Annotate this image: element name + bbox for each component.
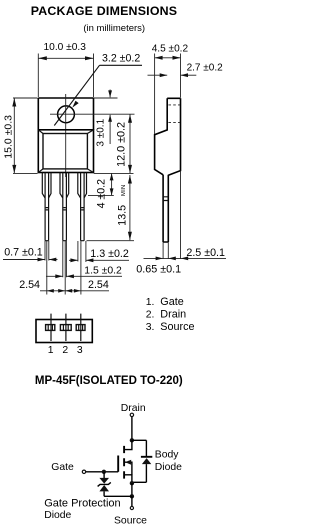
svg-text:Gate: Gate (51, 462, 74, 473)
svg-text:12.0 ±0.2: 12.0 ±0.2 (116, 122, 128, 167)
wire drain down (131, 417, 133, 441)
svg-text:Source: Source (114, 515, 147, 526)
dim 2.54 x2 (19, 279, 109, 293)
svg-text:Body: Body (155, 450, 179, 461)
source terminal (130, 506, 133, 509)
svg-text:Drain: Drain (121, 403, 146, 414)
dim 4 ±0.2 (88, 173, 114, 208)
svg-text:15.0 ±0.3: 15.0 ±0.3 (2, 115, 14, 159)
node source rail (130, 494, 134, 498)
front view tab (38, 98, 93, 130)
bottom view (36, 314, 92, 343)
svg-text:4 ±0.2: 4 ±0.2 (95, 179, 107, 208)
node gate junction (102, 470, 106, 474)
wire top to body diode branch (132, 439, 147, 441)
channel segments (123, 446, 125, 479)
svg-text:0.7 ±0.1: 0.7 ±0.1 (4, 247, 43, 259)
svg-text:13.5: 13.5 (117, 205, 129, 226)
wire source down (131, 483, 133, 496)
wire gate (86, 471, 118, 473)
body diode branch top (145, 440, 147, 456)
body bar with arrow (125, 462, 132, 475)
svg-text:2: 2 (62, 345, 68, 356)
side bottom dims (136, 171, 226, 276)
body outer (38, 130, 93, 173)
svg-text:PACKAGE DIMENSIONS: PACKAGE DIMENSIONS (31, 4, 178, 18)
source bar (124, 475, 132, 483)
svg-text:MIN: MIN (121, 184, 127, 196)
side view outline (155, 98, 181, 242)
dim 2.7 (148, 62, 224, 77)
body chamfers (38, 130, 93, 173)
svg-text:1.3 ±0.2: 1.3 ±0.2 (90, 248, 129, 260)
dim 13.5 MIN (87, 175, 135, 241)
centerline vertical (65, 94, 67, 177)
dim 4.5 (152, 43, 189, 134)
node source junction (130, 481, 134, 485)
svg-text:Gate Protection: Gate Protection (44, 497, 120, 509)
wire rail to protection diode (104, 495, 132, 497)
svg-text:Gate: Gate (160, 296, 183, 308)
svg-text:2.: 2. (146, 310, 155, 321)
svg-text:10.0 ±0.3: 10.0 ±0.3 (44, 42, 87, 53)
svg-text:2.7 ±0.2: 2.7 ±0.2 (187, 62, 224, 73)
svg-text:1: 1 (48, 345, 54, 356)
lead 3 (78, 173, 87, 241)
dim 0.7 (3, 247, 58, 262)
body diode D1 (141, 457, 152, 464)
svg-text:3 ±0.1: 3 ±0.1 (95, 118, 106, 146)
svg-text:Diode: Diode (44, 510, 71, 521)
drain bar (124, 440, 132, 449)
svg-text:3.2 ±0.2: 3.2 ±0.2 (102, 53, 140, 65)
dim 1.5 (46, 266, 122, 279)
wire branch to source node (132, 481, 147, 483)
body inner (43, 134, 87, 169)
bottom extension lines (45, 241, 86, 295)
svg-text:Diode: Diode (155, 462, 182, 473)
dim 10.0 (38, 42, 93, 97)
wire to source terminal (131, 496, 133, 506)
svg-text:Drain: Drain (160, 309, 186, 321)
lead 1 (42, 173, 51, 241)
svg-text:3.: 3. (146, 322, 155, 333)
svg-text:2.54: 2.54 (88, 279, 109, 291)
svg-text:(in millimeters): (in millimeters) (83, 23, 145, 34)
svg-text:2.5 ±0.1: 2.5 ±0.1 (186, 247, 225, 259)
dim 1.3 (69, 248, 129, 262)
body diode branch bottom (145, 464, 147, 482)
svg-text:0.65 ±0.1: 0.65 ±0.1 (136, 264, 181, 276)
dim 3.2 leader (54, 53, 142, 126)
lead crimp marks (46, 208, 84, 210)
dim 3 ±0.1 (94, 90, 118, 147)
lead 2 (60, 173, 69, 241)
svg-text:3: 3 (77, 345, 83, 356)
gate protection diode Z1 (98, 472, 111, 497)
svg-text:2.54: 2.54 (19, 279, 40, 291)
node drain junction (130, 438, 134, 442)
mosfet Q1 (118, 440, 132, 483)
gate bar (117, 456, 119, 472)
svg-text:Source: Source (160, 321, 194, 333)
centerline horizontal (50, 113, 135, 115)
svg-text:1.5 ±0.2: 1.5 ±0.2 (84, 266, 122, 277)
dim 15.0 (2, 98, 37, 173)
svg-text:1.: 1. (146, 297, 155, 308)
dim 12.0 (94, 114, 134, 173)
svg-text:4.5 ±0.2: 4.5 ±0.2 (152, 43, 189, 54)
drain terminal (130, 413, 133, 416)
svg-text:MP-45F(ISOLATED TO-220): MP-45F(ISOLATED TO-220) (35, 375, 183, 387)
gate terminal (82, 470, 85, 473)
mounting hole (58, 106, 75, 123)
